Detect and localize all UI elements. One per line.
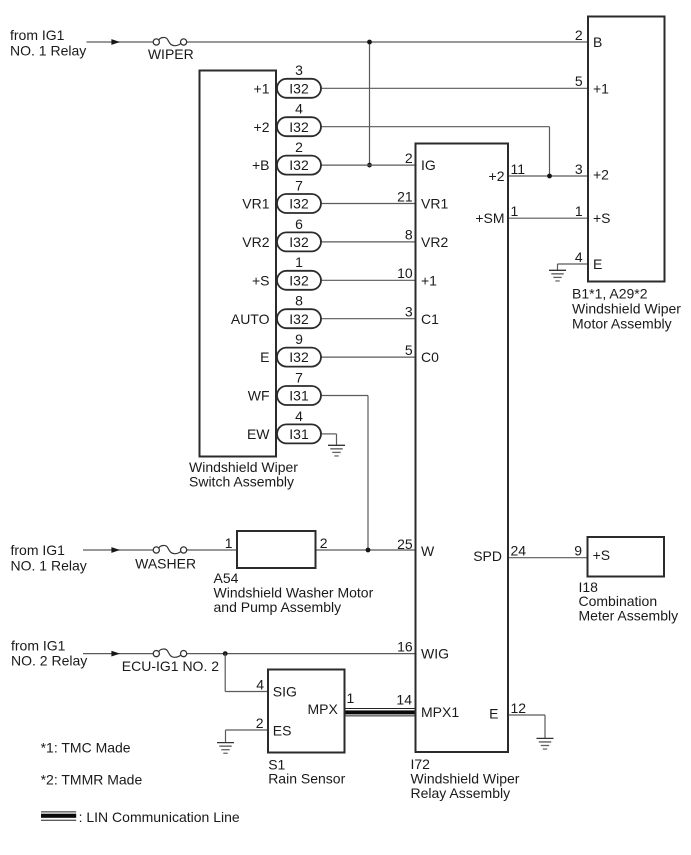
svg-text:1: 1: [225, 535, 233, 551]
svg-text:+S: +S: [252, 272, 270, 288]
svg-text:25: 25: [397, 536, 413, 552]
svg-text:+1: +1: [593, 80, 609, 96]
svg-text:7: 7: [295, 177, 303, 193]
svg-text:E: E: [260, 349, 269, 365]
svg-text:14: 14: [396, 691, 412, 707]
svg-text:+B: +B: [252, 157, 270, 173]
svg-text:VR2: VR2: [242, 234, 269, 250]
svg-text:VR2: VR2: [421, 234, 448, 250]
svg-text:: LIN Communication Line: : LIN Communication Line: [79, 809, 240, 825]
svg-text:I31: I31: [289, 388, 309, 404]
svg-text:3: 3: [405, 304, 413, 320]
svg-text:Motor Assembly: Motor Assembly: [572, 316, 672, 332]
svg-text:21: 21: [397, 188, 413, 204]
svg-text:WF: WF: [248, 388, 270, 404]
svg-text:W: W: [421, 543, 435, 559]
svg-text:AUTO: AUTO: [231, 311, 270, 327]
svg-text:I32: I32: [289, 80, 309, 96]
svg-text:6: 6: [295, 216, 303, 232]
svg-text:5: 5: [575, 73, 583, 89]
svg-text:+2: +2: [489, 168, 505, 184]
svg-text:+2: +2: [254, 119, 270, 135]
svg-text:2: 2: [575, 27, 583, 43]
svg-text:12: 12: [511, 700, 527, 716]
svg-text:I32: I32: [289, 272, 309, 288]
svg-text:WIPER: WIPER: [148, 46, 194, 62]
svg-text:+2: +2: [593, 166, 609, 182]
svg-text:8: 8: [405, 227, 413, 243]
svg-text:+1: +1: [421, 272, 437, 288]
svg-text:4: 4: [295, 101, 303, 117]
svg-text:I31: I31: [289, 426, 309, 442]
svg-text:2: 2: [320, 535, 328, 551]
svg-text:4: 4: [575, 249, 583, 265]
svg-text:MPX: MPX: [307, 701, 338, 717]
svg-text:Meter Assembly: Meter Assembly: [579, 608, 679, 624]
svg-text:I32: I32: [289, 234, 309, 250]
svg-text:from IG1: from IG1: [11, 542, 66, 558]
svg-text:NO. 2 Relay: NO. 2 Relay: [11, 653, 87, 669]
svg-text:Rain Sensor: Rain Sensor: [268, 770, 345, 786]
svg-text:1: 1: [295, 254, 303, 270]
svg-text:1: 1: [511, 203, 519, 219]
svg-text:VR1: VR1: [421, 196, 448, 212]
svg-text:7: 7: [295, 369, 303, 385]
svg-text:NO. 1 Relay: NO. 1 Relay: [11, 557, 87, 573]
svg-text:from IG1: from IG1: [11, 637, 66, 653]
svg-text:C0: C0: [421, 349, 439, 365]
svg-text:*1: TMC Made: *1: TMC Made: [41, 739, 131, 755]
svg-text:I32: I32: [289, 119, 309, 135]
svg-text:*2: TMMR Made: *2: TMMR Made: [41, 771, 143, 787]
svg-text:I32: I32: [289, 196, 309, 212]
svg-text:9: 9: [295, 331, 303, 347]
svg-text:1: 1: [347, 690, 355, 706]
svg-text:Switch Assembly: Switch Assembly: [189, 474, 294, 490]
svg-text:4: 4: [256, 676, 264, 692]
svg-text:+1: +1: [254, 80, 270, 96]
svg-text:3: 3: [295, 62, 303, 78]
svg-text:10: 10: [397, 265, 413, 281]
svg-text:B1*1, A29*2: B1*1, A29*2: [572, 286, 648, 302]
svg-text:+S: +S: [593, 210, 611, 226]
svg-text:SIG: SIG: [273, 684, 297, 700]
svg-text:8: 8: [295, 293, 303, 309]
svg-text:WIG: WIG: [421, 646, 449, 662]
svg-text:E: E: [489, 705, 498, 721]
svg-text:B: B: [593, 34, 602, 50]
svg-text:C1: C1: [421, 311, 439, 327]
svg-text:24: 24: [511, 543, 527, 559]
svg-text:E: E: [593, 256, 602, 272]
svg-text:+SM: +SM: [475, 210, 504, 226]
svg-text:WASHER: WASHER: [135, 556, 196, 572]
svg-text:SPD: SPD: [473, 548, 502, 564]
svg-text:EW: EW: [247, 426, 270, 442]
svg-text:I32: I32: [289, 349, 309, 365]
svg-text:IG: IG: [421, 157, 436, 173]
svg-text:ES: ES: [273, 723, 292, 739]
svg-text:from IG1: from IG1: [10, 27, 65, 43]
svg-text:16: 16: [397, 638, 413, 654]
svg-text:1: 1: [575, 203, 583, 219]
svg-text:I32: I32: [289, 311, 309, 327]
svg-text:4: 4: [295, 408, 303, 424]
svg-text:9: 9: [574, 543, 582, 559]
svg-text:NO. 1 Relay: NO. 1 Relay: [10, 42, 86, 58]
svg-text:2: 2: [295, 139, 303, 155]
svg-text:+S: +S: [593, 547, 611, 563]
svg-text:and Pump Assembly: and Pump Assembly: [214, 599, 342, 615]
svg-text:ECU-IG1 NO. 2: ECU-IG1 NO. 2: [122, 658, 219, 674]
svg-text:MPX1: MPX1: [421, 704, 459, 720]
svg-text:2: 2: [256, 715, 264, 731]
svg-text:Relay Assembly: Relay Assembly: [411, 785, 511, 801]
svg-text:Windshield Wiper: Windshield Wiper: [572, 301, 681, 317]
svg-text:3: 3: [575, 161, 583, 177]
svg-text:I32: I32: [289, 157, 309, 173]
svg-text:2: 2: [405, 150, 413, 166]
svg-text:11: 11: [511, 161, 526, 177]
svg-text:VR1: VR1: [242, 196, 269, 212]
svg-text:5: 5: [405, 342, 413, 358]
